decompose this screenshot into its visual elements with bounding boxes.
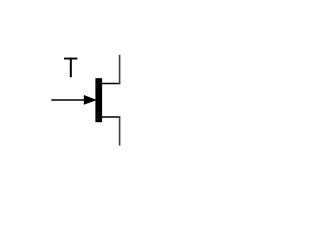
label T	[64, 58, 77, 78]
wire base lead	[51, 99, 85, 101]
wire collector lead horizontal	[99, 83, 120, 85]
wire collector lead vertical	[119, 55, 121, 84]
transistor bar	[95, 78, 102, 122]
wire emitter lead vertical	[119, 116, 121, 145]
wire emitter lead horizontal	[99, 116, 120, 118]
arrow base	[84, 95, 97, 105]
transistor T (schematic symbol)	[0, 0, 200, 200]
